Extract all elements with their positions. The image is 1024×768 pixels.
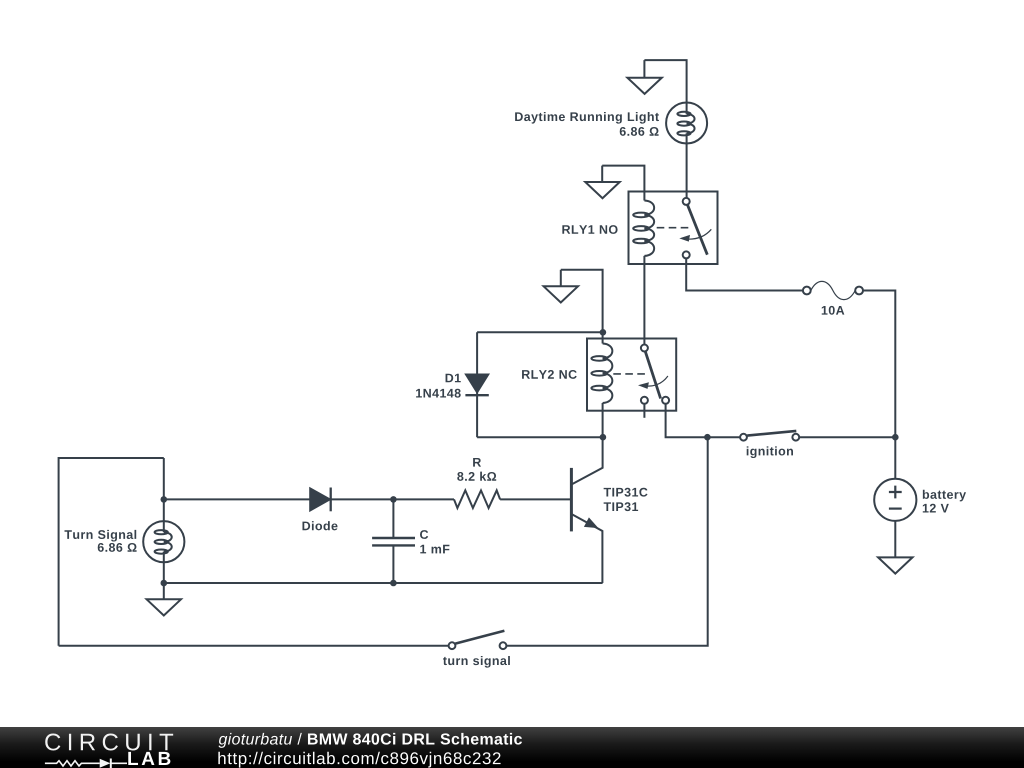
capacitor C (372, 499, 415, 583)
relay RLY2 switch (613, 345, 669, 404)
diode D2 "Diode" (310, 488, 331, 512)
logo mini schematic (45, 761, 100, 766)
node battery top (892, 434, 899, 441)
ground G5 battery (878, 557, 912, 573)
lamp L1 Daytime Running Light (666, 103, 707, 144)
fuse F1 10A (803, 281, 863, 299)
transistor Q1 TIP31C (571, 437, 602, 583)
relay RLY1 box (629, 192, 718, 265)
relay RLY2 coil (591, 344, 612, 404)
label battery (923, 490, 966, 502)
node cap top (390, 496, 397, 503)
label D1 (446, 374, 461, 383)
label RLY2 (522, 370, 577, 379)
label fuse (822, 306, 845, 315)
wire RLY1 coil to RLY2 common (643, 256, 645, 345)
ground G2 (585, 166, 619, 199)
url (218, 752, 500, 768)
diode D1 (465, 332, 488, 437)
wire G2 to RLY1 coil (602, 166, 644, 201)
node top row left (161, 496, 168, 503)
relay RLY1 switch (657, 198, 712, 259)
label Diode (302, 521, 337, 530)
label transistor (604, 488, 648, 497)
relay RLY2 box (587, 339, 676, 411)
resistor R zigzag (454, 490, 500, 508)
switch SW2 turn signal (449, 631, 507, 649)
node bottom row left (161, 580, 168, 587)
wire bottom loop (59, 645, 449, 647)
node collector (600, 434, 607, 441)
wire turn switch to ignition node (506, 437, 707, 646)
wire diode to resistor (331, 498, 454, 500)
wire D1 bottom to collector node (477, 436, 603, 438)
wire G4 to RLY2 coil (561, 270, 603, 344)
wire resistor to base (500, 498, 571, 500)
logo LAB (128, 752, 170, 765)
footer bar (0, 727, 1024, 768)
wire top row to diode (164, 498, 310, 500)
junction dots (161, 329, 899, 586)
label R (473, 458, 481, 467)
label ignition (747, 446, 793, 458)
wire D1 top to RLY2 coil node (477, 331, 603, 333)
wire lamp to RLY1 (686, 144, 688, 199)
switch SW ignition (740, 431, 799, 441)
wire RLY2 moving contact to ignition row (666, 404, 741, 437)
ground G1 top (627, 60, 661, 94)
turn signal source loop left (59, 458, 164, 646)
label turn signal switch (443, 656, 510, 668)
lamp L2 Turn Signal (143, 458, 184, 562)
wire fuse to battery node (863, 291, 895, 438)
wire RLY1 NO contact to fuse (686, 258, 803, 290)
node cap bottom (390, 580, 397, 587)
node ignition left (704, 434, 711, 441)
node D1 top (600, 329, 607, 336)
label RLY1 (562, 225, 617, 234)
battery V1 (874, 437, 916, 557)
ground G4 (544, 270, 578, 303)
wire RLY2 coil to node (602, 403, 604, 437)
label C (420, 530, 428, 539)
wire ignition to battery node (799, 436, 895, 438)
wire bottom row emitter (164, 582, 603, 584)
title (219, 733, 522, 748)
label turn signal lamp (64, 530, 136, 542)
wire G1 to lamp (644, 60, 686, 102)
relay RLY1 coil (633, 201, 654, 256)
ground G3 turn signal (147, 562, 181, 615)
logo CIRCUIT (45, 734, 173, 751)
label DRL (515, 112, 659, 124)
RLY2 unused terminal stub (643, 404, 645, 418)
